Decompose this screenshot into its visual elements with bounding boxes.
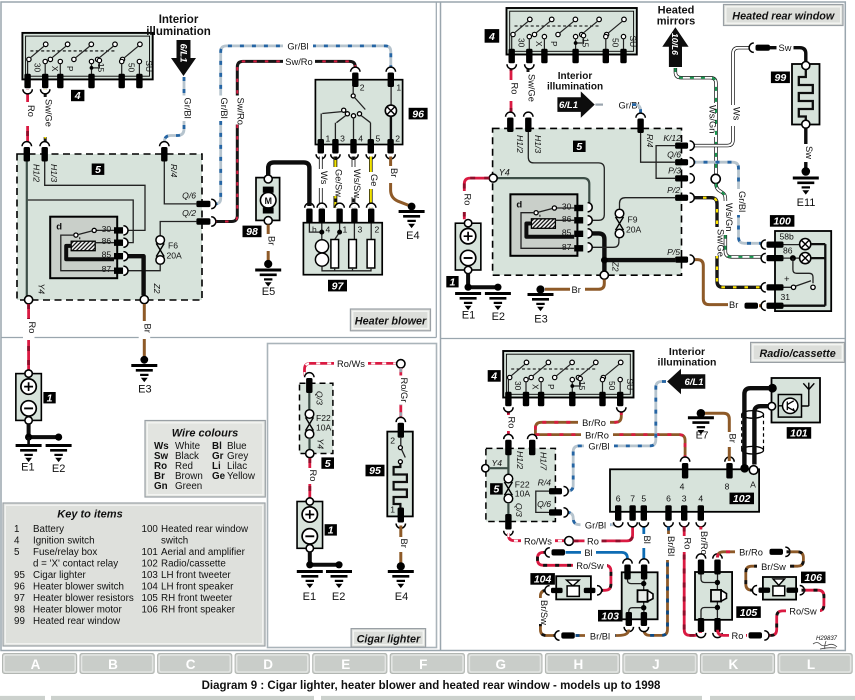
wire H1/3 to relay 86 (right) xyxy=(528,132,604,220)
svg-text:Cigar lighter: Cigar lighter xyxy=(33,570,87,581)
svg-text:Heated rear window: Heated rear window xyxy=(732,10,835,22)
ground E4 xyxy=(399,203,425,242)
inline connector Br to 31 xyxy=(745,303,765,309)
ignition switch 4 (radio) xyxy=(503,351,635,406)
wire Br/Ro 105 top-right to inline connector xyxy=(718,547,768,558)
wire Ro/Gr node to 95 xyxy=(395,368,409,420)
svg-text:101: 101 xyxy=(142,547,158,558)
relay d (right) xyxy=(510,194,583,256)
svg-text:illumination: illumination xyxy=(658,357,717,369)
battery 1 (cigar) xyxy=(297,498,323,552)
label 99 xyxy=(771,72,790,85)
connector under pin 30 xyxy=(23,89,32,94)
svg-text:Bl: Bl xyxy=(642,536,652,544)
ground E2 (right) xyxy=(485,294,511,324)
svg-text:1: 1 xyxy=(47,392,53,404)
label box: Cigar lighter xyxy=(351,629,426,648)
svg-text:4: 4 xyxy=(680,482,685,492)
relay pin connectors xyxy=(123,226,128,275)
wire Ws K/12 to Sw connector xyxy=(692,48,750,146)
terminal P/5 xyxy=(667,247,694,264)
ground E5 xyxy=(255,260,281,298)
fuse/relay box 5 xyxy=(17,154,202,300)
wire Bl connector to 103 top-left xyxy=(566,547,628,562)
svg-text:Bl: Bl xyxy=(584,548,592,558)
svg-text:E3: E3 xyxy=(138,384,151,396)
svg-text:Ws/Sw: Ws/Sw xyxy=(352,169,362,198)
svg-text:Br: Br xyxy=(729,300,738,310)
arrow 6/L1 down xyxy=(171,40,196,76)
ground E2 xyxy=(46,446,72,476)
svg-text:106: 106 xyxy=(804,572,822,584)
svg-text:+: + xyxy=(784,274,790,285)
svg-text:Wire colours: Wire colours xyxy=(172,428,239,440)
svg-text:h: h xyxy=(312,225,317,235)
terminal K/12 xyxy=(663,133,694,150)
svg-text:d = 'X' contact relay: d = 'X' contact relay xyxy=(33,559,118,570)
wire core 101 to radio A xyxy=(754,406,768,464)
ground E3 (right) xyxy=(528,285,554,325)
cigar lighter panel frame xyxy=(268,344,437,648)
svg-text:Radio/cassette: Radio/cassette xyxy=(161,559,226,570)
svg-text:103: 103 xyxy=(142,570,159,581)
node Y4 (right) xyxy=(489,167,510,182)
wire Ws/Gn heated mirrors to P/3 circle junction xyxy=(675,68,717,175)
svg-text:104: 104 xyxy=(142,582,159,593)
svg-text:2: 2 xyxy=(395,134,400,144)
svg-text:F: F xyxy=(419,657,427,672)
label box: Heated rear window xyxy=(724,5,844,26)
connector under pin X (right) xyxy=(525,64,534,69)
svg-text:Sw: Sw xyxy=(779,43,792,53)
svg-text:Heater blower switch: Heater blower switch xyxy=(33,582,124,593)
connector under pin X xyxy=(41,89,50,94)
svg-text:Heater blower motor: Heater blower motor xyxy=(33,605,122,616)
svg-text:H1/2: H1/2 xyxy=(515,135,525,153)
fuse F6 20A xyxy=(156,236,182,265)
svg-text:Br/Bl: Br/Bl xyxy=(666,536,676,556)
svg-text:106: 106 xyxy=(142,605,159,616)
interior illumination text (right) xyxy=(547,71,603,93)
heater blower switch 96 xyxy=(315,67,402,159)
svg-text:E4: E4 xyxy=(395,591,408,603)
svg-text:Gn: Gn xyxy=(154,481,168,492)
svg-text:H1/2: H1/2 xyxy=(31,164,41,182)
svg-text:1: 1 xyxy=(343,225,348,235)
svg-text:Y4: Y4 xyxy=(499,167,510,177)
svg-text:Gr/Bl: Gr/Bl xyxy=(588,442,609,452)
label 1 xyxy=(43,392,55,404)
wire Sw/Ro from Q/2 up and over to 96 pin 2 xyxy=(214,56,356,222)
svg-text:F9: F9 xyxy=(628,215,638,225)
svg-text:1: 1 xyxy=(449,276,455,288)
svg-text:Cigar lighter: Cigar lighter xyxy=(357,634,421,646)
terminal H1/2 xyxy=(22,142,41,183)
svg-text:Gr/Bl: Gr/Bl xyxy=(585,521,606,531)
wire Br/Sw 104 left to inline connector xyxy=(535,590,556,635)
svg-text:Interior: Interior xyxy=(159,14,199,26)
svg-text:Sw/Ge: Sw/Ge xyxy=(715,229,725,257)
terminal Q/3 (cigar) xyxy=(305,373,325,405)
fuse/relay box 5 (right) xyxy=(493,128,682,275)
interior illumination text (radio) xyxy=(658,346,717,369)
wire Sw 99 to E11 xyxy=(800,128,814,168)
svg-text:105: 105 xyxy=(740,607,758,619)
svg-text:Br/Ro: Br/Ro xyxy=(699,531,709,555)
label 97 xyxy=(328,280,347,293)
svg-text:Heated rear window: Heated rear window xyxy=(33,616,121,627)
svg-text:105: 105 xyxy=(142,593,159,604)
svg-text:Q/6: Q/6 xyxy=(667,150,681,160)
svg-text:5: 5 xyxy=(376,134,381,144)
svg-text:P/5: P/5 xyxy=(667,247,680,257)
terminal Q/3 (radio) xyxy=(504,514,513,535)
svg-text:98: 98 xyxy=(246,226,258,238)
svg-text:Ro: Ro xyxy=(463,194,473,206)
wire relay 85 to Z2 ground node xyxy=(126,256,144,295)
svg-text:H1/2: H1/2 xyxy=(515,451,525,469)
svg-text:K/12: K/12 xyxy=(663,133,681,143)
wire F22 to Y4 (cigar) xyxy=(310,438,326,450)
svg-text:97: 97 xyxy=(332,280,345,292)
label 100 xyxy=(770,215,795,228)
svg-text:100: 100 xyxy=(773,216,791,228)
svg-text:4: 4 xyxy=(358,134,363,144)
svg-text:6/L1: 6/L1 xyxy=(559,100,578,111)
svg-text:Ro: Ro xyxy=(26,105,36,117)
svg-text:Br: Br xyxy=(728,434,738,443)
svg-text:8: 8 xyxy=(725,482,730,492)
wire Ro/Ws top link xyxy=(305,358,397,376)
svg-text:Ge/Sw: Ge/Sw xyxy=(334,169,344,197)
svg-text:Br/Sw: Br/Sw xyxy=(761,562,786,572)
inline connector Ro xyxy=(749,631,769,640)
connector under pin SU (radio) xyxy=(617,407,626,412)
node circle Ro/Ws-Ro xyxy=(565,537,574,546)
wire Ws 96-1 to 97-4 xyxy=(315,157,329,209)
label 105 xyxy=(736,606,761,619)
svg-text:Ro/Sw: Ro/Sw xyxy=(576,561,604,571)
right panel divider horizontal xyxy=(441,338,846,340)
LH front tweeter 103 xyxy=(622,559,658,632)
label 4 (right) xyxy=(485,29,500,43)
wire Q/3 to F22 (cigar) xyxy=(308,393,310,410)
wire F6 to relay 87 xyxy=(127,264,161,270)
svg-text:B: B xyxy=(108,657,118,672)
svg-text:E2: E2 xyxy=(492,311,505,323)
ground E1 (cigar) xyxy=(297,572,323,604)
svg-text:Q/6: Q/6 xyxy=(537,499,551,509)
label box: Radio/cassette xyxy=(751,342,845,362)
wire Gr/Bl Q/6 to 100-58b xyxy=(692,162,765,243)
wire Bl radio 5 to 103 top-right xyxy=(638,527,652,563)
svg-text:J: J xyxy=(652,657,660,672)
svg-text:E1: E1 xyxy=(303,591,316,603)
svg-text:101: 101 xyxy=(790,428,808,440)
svg-text:Radio/cassette: Radio/cassette xyxy=(759,348,835,360)
svg-text:6/L1: 6/L1 xyxy=(177,44,188,63)
terminal H1/2 (radio) xyxy=(504,434,525,469)
svg-text:6: 6 xyxy=(666,494,671,504)
svg-text:3: 3 xyxy=(358,225,363,235)
svg-text:Ro: Ro xyxy=(27,322,37,334)
svg-text:A: A xyxy=(750,480,756,490)
svg-text:Ro: Ro xyxy=(732,631,744,641)
terminal H1/3 xyxy=(40,142,59,183)
svg-text:3: 3 xyxy=(340,134,345,144)
label 5 (right) xyxy=(573,141,586,153)
svg-text:Sw: Sw xyxy=(804,146,814,159)
svg-text:3: 3 xyxy=(682,494,687,504)
node Z2 xyxy=(140,283,162,304)
svg-text:20A: 20A xyxy=(167,251,183,261)
svg-text:Ws/Gn: Ws/Gn xyxy=(724,203,734,231)
wire Ro/Ws Q/3 to node circle xyxy=(508,533,564,547)
svg-text:Ro: Ro xyxy=(308,470,318,482)
svg-text:K: K xyxy=(729,657,739,672)
svg-text:E11: E11 xyxy=(797,197,816,209)
svg-text:Ro: Ro xyxy=(587,537,599,547)
heated rear window switch 100 xyxy=(761,231,831,311)
svg-text:M: M xyxy=(264,196,272,206)
ground E3 xyxy=(131,356,157,396)
connector under pin 30 (radio) xyxy=(504,407,513,412)
svg-text:Ge: Ge xyxy=(369,174,379,186)
terminal H1/3 (right) xyxy=(524,112,543,153)
terminal Q/2 xyxy=(182,208,216,226)
svg-text:10/L6: 10/L6 xyxy=(670,33,680,55)
wire Sw/Ge ignition X to H1/3 xyxy=(40,89,54,146)
wire Ws/Gn junction to 100-86 xyxy=(716,184,764,257)
node circle Ro/Ws-Ro/Gr xyxy=(397,360,405,368)
label 96 xyxy=(409,108,428,121)
svg-text:Ro/Sw: Ro/Sw xyxy=(789,607,817,617)
cigar lighter 95 xyxy=(387,417,413,528)
wire Ge 96-5 to 97-2 xyxy=(365,157,379,209)
fuse/relay box 5 (radio) xyxy=(486,448,556,521)
svg-text:Ignition switch: Ignition switch xyxy=(33,536,95,547)
left panel border xyxy=(1,2,437,338)
svg-text:2: 2 xyxy=(390,435,395,445)
svg-text:Br: Br xyxy=(389,168,399,177)
wire Gr/Bl from Q/6 up and over to 96 pin 1 xyxy=(214,41,391,204)
svg-text:10A: 10A xyxy=(515,489,531,499)
svg-text:4: 4 xyxy=(490,371,497,383)
svg-text:E7: E7 xyxy=(696,430,709,442)
wire Br/Bl radio 6b down to 103 bottom-right xyxy=(644,527,676,636)
svg-text:95: 95 xyxy=(14,570,25,581)
svg-text:1: 1 xyxy=(14,524,19,535)
label 1 (right) xyxy=(446,276,458,288)
wire F22 to Q/3 (radio) xyxy=(508,503,524,517)
ignition switch 4 xyxy=(22,33,154,88)
wire H1/2 branch to relay 86 xyxy=(28,200,133,243)
label 101 xyxy=(787,427,812,440)
label 4 xyxy=(71,90,84,102)
ignition switch 4 (right) xyxy=(507,8,639,63)
wire Ro ignition 30 to H1/2 xyxy=(22,89,36,146)
svg-text:Ro: Ro xyxy=(507,417,517,429)
wire Ge/Sw 96-3 to 97-1 xyxy=(330,157,344,209)
svg-text:Ro/Ws: Ro/Ws xyxy=(524,537,552,547)
svg-text:H: H xyxy=(574,657,584,672)
svg-text:96: 96 xyxy=(412,108,424,120)
svg-text:2: 2 xyxy=(360,83,365,93)
svg-text:Br/Ro: Br/Ro xyxy=(585,430,609,440)
svg-text:Heater blower resistors: Heater blower resistors xyxy=(33,593,134,604)
svg-text:Ro/Ws: Ro/Ws xyxy=(337,359,365,369)
wire Br 96-2 to E4 xyxy=(385,157,412,207)
node P/3 junction circle xyxy=(711,174,720,183)
svg-text:4: 4 xyxy=(14,536,20,547)
svg-text:Br/Bl: Br/Bl xyxy=(590,631,610,641)
inline connector Bl xyxy=(545,548,565,557)
svg-text:LH front speaker: LH front speaker xyxy=(161,582,234,593)
wire Br/Bl connector to 103 bottom-left xyxy=(576,630,629,642)
wire relay 87 to F9 (right) xyxy=(591,238,619,247)
svg-text:102: 102 xyxy=(142,559,158,570)
svg-text:102: 102 xyxy=(733,493,751,505)
wire H1/2 to Y4 internal xyxy=(26,160,28,296)
battery 1 (right) xyxy=(455,220,481,274)
svg-text:Q/3: Q/3 xyxy=(514,503,524,517)
svg-text:E2: E2 xyxy=(52,463,65,475)
svg-text:Br: Br xyxy=(143,324,153,333)
ground E7 xyxy=(688,409,714,442)
svg-text:6: 6 xyxy=(616,494,621,504)
fuse F22 10A (cigar) xyxy=(305,410,331,439)
radio/cassette 102 xyxy=(610,457,759,527)
svg-text:RH front speaker: RH front speaker xyxy=(161,605,236,616)
relay pin connectors (right) xyxy=(588,203,593,252)
wire Y4 to relay 30 (right) xyxy=(497,178,592,207)
battery negative wire to grounds xyxy=(25,424,62,441)
svg-text:104: 104 xyxy=(534,574,552,586)
RH front tweeter 105 xyxy=(695,554,732,638)
wire relay 85 to Z2 and P/5 (right) xyxy=(591,233,675,271)
svg-text:Sw/Ro: Sw/Ro xyxy=(285,57,312,67)
svg-text:Br: Br xyxy=(399,539,409,548)
wire Ws/Sw 96-4 to 97-3 xyxy=(348,157,362,209)
wire Br/Ro radio 4 down to 105 top-left xyxy=(695,527,709,558)
wire Br Z2 to E3 (right) xyxy=(545,280,604,295)
svg-text:E5: E5 xyxy=(262,286,275,298)
panel divider vertical xyxy=(440,2,442,651)
wire Br Z2 to E3 xyxy=(139,304,153,357)
relay d xyxy=(50,217,123,279)
signature H29837 xyxy=(813,636,838,649)
battery negative wire to grounds (right) xyxy=(465,274,502,291)
svg-text:Y4: Y4 xyxy=(316,439,326,450)
wire K/12 to P/3 bracket internal xyxy=(656,146,675,179)
screened aerial lead xyxy=(742,411,764,454)
RH front speaker 106 xyxy=(752,577,804,600)
svg-text:Ro: Ro xyxy=(683,538,693,550)
svg-text:1: 1 xyxy=(390,505,395,515)
svg-text:99: 99 xyxy=(14,616,25,627)
svg-text:31: 31 xyxy=(781,292,791,302)
svg-text:5: 5 xyxy=(14,547,20,558)
wire R/4 to Q/6 bracket internal (radio) xyxy=(536,491,549,512)
wire Ro radio 3 down to 105 bottom-left xyxy=(679,527,701,636)
label 98 xyxy=(243,226,262,239)
svg-text:95: 95 xyxy=(369,465,381,477)
label 102 xyxy=(730,493,755,506)
svg-text:H1/3: H1/3 xyxy=(49,164,59,182)
wire Br/Ro ignition SU to H1/7 and radio 4 xyxy=(535,411,685,461)
terminal R/4 xyxy=(160,142,179,178)
wire thick black 98 to 97-h xyxy=(268,162,309,206)
svg-text:illumination: illumination xyxy=(146,26,211,38)
svg-text:RH front tweeter: RH front tweeter xyxy=(161,593,233,604)
wire Ro Y4 to battery xyxy=(23,304,37,370)
svg-text:Ws: Ws xyxy=(319,171,329,185)
fuse F22 10A (radio) xyxy=(504,474,530,503)
wire Ro/Sw 106 right to inline connector xyxy=(767,590,824,635)
svg-text:F22: F22 xyxy=(316,413,331,423)
svg-text:103: 103 xyxy=(601,610,619,622)
label 104 xyxy=(530,573,555,586)
svg-text:5: 5 xyxy=(325,458,331,470)
wire colours legend box xyxy=(145,421,265,498)
heater blower resistors 97 xyxy=(303,203,382,275)
svg-text:Interior: Interior xyxy=(558,71,593,82)
label 1 (cigar) xyxy=(325,524,337,536)
svg-text:7: 7 xyxy=(630,494,635,504)
svg-text:E1: E1 xyxy=(462,310,475,322)
svg-text:99: 99 xyxy=(775,72,787,84)
svg-text:A: A xyxy=(31,657,41,672)
svg-text:Yellow: Yellow xyxy=(227,471,256,482)
wire F9 to P/2 internal xyxy=(620,198,676,210)
svg-text:Br/Sw: Br/Sw xyxy=(539,600,549,625)
svg-text:G: G xyxy=(496,657,507,672)
svg-text:Ws: Ws xyxy=(732,107,742,121)
arrow 6/L1 left xyxy=(667,369,705,394)
wire Br E7 to radio 8 xyxy=(705,413,738,461)
inline connector Br/Bl bottom xyxy=(555,631,575,640)
wire Sw/Ge P/2 to 100-plus xyxy=(692,198,765,288)
ground E1 xyxy=(16,437,42,474)
svg-text:Ge: Ge xyxy=(212,471,226,482)
battery negative wire to grounds (cigar) xyxy=(306,552,342,569)
wire Gr/Bl from 6/L1 arrow to R/4 xyxy=(164,77,192,146)
aerial and amplifier 101 xyxy=(768,378,820,423)
svg-text:Br: Br xyxy=(267,236,277,245)
wire R/4 to Q/6 internal xyxy=(164,160,196,204)
label box: Heater blower xyxy=(350,309,430,331)
terminal Q/6 (right) xyxy=(667,150,694,167)
svg-text:P/3: P/3 xyxy=(668,166,681,176)
svg-text:Sw/Ro: Sw/Ro xyxy=(236,98,246,125)
svg-text:Heated rear window: Heated rear window xyxy=(161,524,249,535)
svg-text:5: 5 xyxy=(493,484,499,496)
label 95 xyxy=(366,465,385,478)
terminal Q/6 xyxy=(182,190,216,208)
wire screen 101 to radio top xyxy=(744,388,769,465)
svg-text:E4: E4 xyxy=(406,230,419,242)
svg-text:5: 5 xyxy=(576,141,582,153)
svg-text:F6: F6 xyxy=(168,241,178,251)
label 5 (cigar) xyxy=(321,457,334,469)
svg-text:1: 1 xyxy=(328,525,334,537)
svg-text:5: 5 xyxy=(95,164,101,176)
heated rear window 99 xyxy=(792,62,820,129)
svg-text:R/4: R/4 xyxy=(538,478,552,488)
svg-text:Green: Green xyxy=(175,481,202,492)
svg-text:98: 98 xyxy=(14,605,25,616)
wire Br/Sw connector to 106 left xyxy=(746,552,804,590)
